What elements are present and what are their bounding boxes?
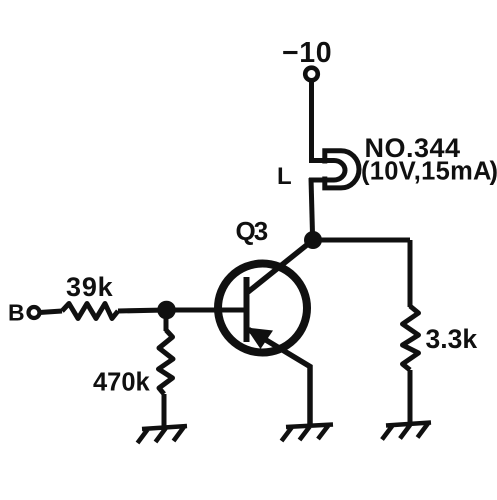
wire: 39k to base node and on to base bar bbox=[118, 310, 244, 311]
node: base junction dot bbox=[157, 301, 176, 320]
terminal -10 (open circle) bbox=[305, 68, 318, 81]
terminal B (open circle) bbox=[29, 307, 40, 318]
wire: 3.3k to ground bbox=[408, 370, 413, 423]
transistor Q3 body circle bbox=[218, 264, 307, 353]
node: collector junction dot bbox=[304, 231, 322, 249]
resistor 39k bbox=[62, 304, 118, 319]
lamp L outer loop bbox=[325, 151, 359, 188]
wire: transistor collector to junction bbox=[248, 240, 313, 292]
wire: lamp bottom lead down to collector node bbox=[311, 178, 313, 234]
lamp L inner loop with leads bbox=[309, 161, 345, 181]
ground (left, under 470k) bbox=[138, 426, 188, 443]
wire: B terminal to 39k bbox=[40, 311, 63, 313]
wire: transistor emitter to ground bbox=[249, 330, 311, 426]
svg-text:39k: 39k bbox=[66, 272, 114, 302]
svg-text:): ) bbox=[490, 158, 497, 186]
ground (right, under 3.3k) bbox=[382, 423, 431, 440]
resistor 3.3k bbox=[403, 306, 419, 370]
wire: -10 terminal to lamp top lead bbox=[309, 81, 314, 163]
svg-text:470k: 470k bbox=[93, 369, 151, 397]
transistor Q3 base bar bbox=[244, 277, 250, 342]
svg-text:Q3: Q3 bbox=[236, 216, 268, 246]
svg-text:L: L bbox=[277, 163, 292, 190]
wire: right branch vertical down to 3.3k bbox=[408, 240, 413, 307]
wire: junction to right branch bbox=[313, 238, 410, 243]
svg-text:(10V,15mA: (10V,15mA bbox=[361, 158, 492, 186]
svg-text:3.3k: 3.3k bbox=[426, 324, 478, 354]
emitter arrow (PNP, pointing to base bar) bbox=[246, 328, 273, 350]
svg-text:−10: −10 bbox=[282, 37, 332, 69]
svg-text:B: B bbox=[8, 300, 25, 326]
ground (middle, under emitter) bbox=[282, 425, 334, 442]
wire: 470k to ground bbox=[162, 394, 167, 427]
resistor 470k bbox=[159, 330, 174, 394]
wire: base node down to 470k bbox=[164, 317, 169, 331]
